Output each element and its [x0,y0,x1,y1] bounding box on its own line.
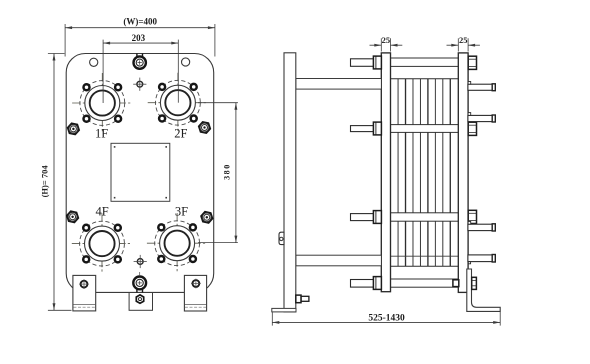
svg-text:1F: 1F [95,126,108,140]
lifting lug on frame plate [279,232,284,244]
fixed frame plate (side view) [272,53,296,312]
dimension 25 left [370,35,403,52]
dimension 525-1430 [272,312,500,326]
nameplate [111,143,170,201]
tie bolt 2 nut right [468,122,476,135]
tie bolt 4 nut right [472,277,477,289]
bottom center bracket [129,293,152,311]
carrying bar (upper, left segment) [296,79,382,90]
svg-text:2F: 2F [174,126,187,140]
right foot (front view) [184,275,206,311]
tie bolt 1 bar [381,58,468,66]
port 1F [72,73,132,133]
bottom center bolt [133,272,146,293]
tie bolt 3 rod left [351,214,374,221]
tie bolt 3 bar [381,213,468,221]
lower nozzle [468,224,495,231]
tie bolt head upper-left [68,123,79,134]
svg-text:203: 203 [132,33,146,43]
lower small locating hole [134,255,147,268]
tie bolt 3 nut left [373,211,381,224]
port 2F [148,73,208,133]
top carrying-bar bolt [134,54,146,69]
tie bolt head upper-right [199,122,210,133]
guide bar (lower, left segment) [296,255,382,266]
tie bolt head lower-right [201,212,212,223]
pressure plate column left [381,53,390,292]
weld tick upper nozzle [468,113,471,116]
weld tick lower nozzle [468,222,471,225]
upper nozzle [468,115,495,122]
tie bolt 2 nut left [373,122,381,135]
port 3F [147,213,207,273]
svg-text:4F: 4F [95,204,108,218]
tie bolt 4 rod left [351,280,374,288]
svg-text:525-1430: 525-1430 [368,313,405,323]
svg-text:25: 25 [459,35,468,45]
weld tick guide bar [468,262,470,264]
pressure plate column right [458,53,468,293]
tie bolt 3 nut right [468,210,476,223]
front view: frame plate outline [66,54,214,293]
dimension (W)=400 [65,17,215,57]
svg-text:(H)= 704: (H)= 704 [40,165,50,198]
svg-text:(W)=400: (W)=400 [123,17,157,27]
tie bolt 2 rod left [351,126,374,132]
plate pack [391,79,459,267]
carrying bar right end [468,84,495,91]
tie bolt 1 nut left [373,56,381,69]
svg-text:3F: 3F [175,204,188,218]
tie bolt 1 rod left [351,59,374,67]
left foot (front view) [73,275,96,311]
tie bolt 4 bar [381,279,468,287]
port 4F [72,213,132,273]
dimension 380 [198,103,238,243]
dimension 25 right [447,35,480,52]
upper small locating hole [133,78,146,91]
svg-text:380: 380 [222,163,231,180]
tie bolt 2 bar [381,125,468,133]
tie bolt 4 nut left [373,277,381,290]
tie bolt 1 nut right [468,56,476,69]
dimension 203 [103,33,178,103]
foot bolt on frame plate [296,295,309,303]
svg-text:25: 25 [382,35,391,45]
weld tick carrying bar [468,82,471,85]
guide bar right end [468,255,495,263]
top lifting hole left [90,58,98,66]
top lifting hole right [182,58,190,66]
dimension (H)=704 [40,54,72,311]
tie bolt 4 nut at foot left [453,280,459,287]
support foot right (side view) [467,269,500,311]
tie bolt head lower-left [67,211,78,222]
